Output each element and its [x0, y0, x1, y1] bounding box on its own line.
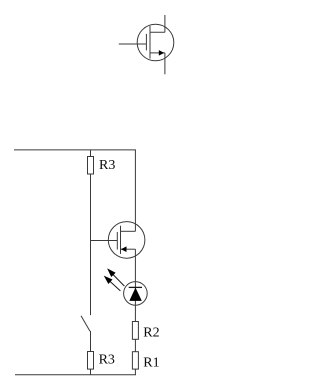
LED D1 emission arrow 2 [105, 277, 121, 291]
wire lower R3 to bottom rail [90, 369, 92, 375]
resistor R2 [132, 322, 138, 340]
transistor Q1 (middle MOSFET) [91, 222, 145, 259]
switch S1 blade [81, 316, 90, 332]
resistor R1 [132, 352, 138, 369]
resistor R3 (upper) [88, 157, 94, 175]
svg-text:R2: R2 [143, 325, 159, 340]
transistor Q1 drain connection [121, 230, 136, 232]
wire top rail [14, 149, 136, 151]
wire Q1 source down through LED to R2 [134, 249, 136, 321]
transistor Q2 source arrow [159, 50, 164, 56]
LED D1 anode triangle [129, 288, 142, 301]
transistor Q1 source arrow [121, 246, 127, 252]
svg-text:R1: R1 [143, 356, 159, 371]
wire upper R3 down to switch [90, 174, 92, 315]
transistor Q2 gate bar [145, 34, 147, 51]
transistor Q1 gate bar [116, 232, 118, 250]
resistor R3 (lower) [88, 352, 94, 370]
transistor Q2 (top-right MOSFET symbol) [119, 15, 174, 74]
wire bottom rail [15, 374, 136, 376]
wire switch to lower R3 [90, 331, 92, 352]
transistor Q2 drain connection [150, 15, 165, 32]
LED D1 emission arrow 1 [108, 270, 124, 287]
svg-text:R3: R3 [99, 158, 115, 173]
svg-text:R3: R3 [99, 353, 115, 368]
transistor Q2 body circle [137, 24, 174, 61]
transistor Q1 source connection [121, 248, 136, 250]
transistor Q1 channel bar [120, 226, 122, 254]
wire R2 to R1 [134, 339, 136, 351]
transistor Q1 body circle [108, 222, 145, 259]
wire R1 to bottom rail [134, 369, 136, 375]
transistor Q1 gate lead wire [91, 240, 118, 242]
LED D1 body circle [124, 282, 148, 306]
wire right branch from rail corner down to Q1 drain [134, 150, 136, 231]
transistor Q2 gate lead wire [119, 43, 147, 45]
LED D1 cathode bar [129, 286, 142, 288]
transistor Q2 channel bar [149, 26, 151, 59]
transistor Q2 source connection [150, 53, 165, 74]
wire stub from rail to upper R3 [90, 150, 92, 157]
LED D1 [124, 282, 148, 306]
